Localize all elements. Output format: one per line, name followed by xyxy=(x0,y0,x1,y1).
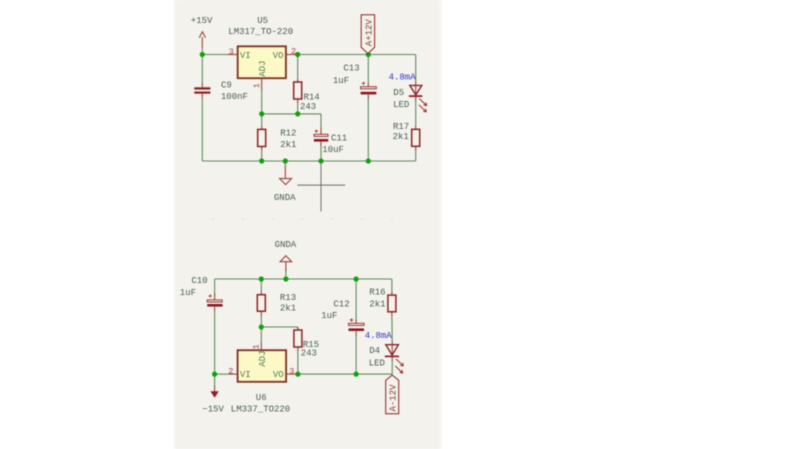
svg-text:2: 2 xyxy=(228,367,233,377)
junction C13 bottom rail xyxy=(366,158,371,163)
svg-text:C12: C12 xyxy=(333,299,349,309)
svg-text:243: 243 xyxy=(301,348,317,358)
svg-text:+15V: +15V xyxy=(191,16,213,26)
junction VO pin / R15 node xyxy=(295,372,300,377)
svg-text:C10: C10 xyxy=(191,276,207,286)
wire VI row xyxy=(215,373,229,375)
svg-text:LM317_TO-220: LM317_TO-220 xyxy=(228,27,293,37)
resistor R15 xyxy=(294,327,319,358)
wire R16 / LED D4 column xyxy=(391,279,393,374)
junction at +15V / VI rail xyxy=(200,52,205,57)
wire +15V stem xyxy=(201,47,203,55)
svg-text:ADJ: ADJ xyxy=(258,61,268,77)
junction R12 bottom rail xyxy=(259,158,264,163)
svg-text:LED: LED xyxy=(393,100,409,110)
svg-text:C9: C9 xyxy=(221,80,232,90)
wire R13 column xyxy=(260,279,262,327)
svg-text:−15V: −15V xyxy=(202,405,224,415)
wire GNDA stem top xyxy=(284,161,286,167)
svg-text:VI: VI xyxy=(240,51,251,61)
wire mid row bottom xyxy=(261,326,298,328)
current label 4.8mA (bottom) xyxy=(365,331,393,341)
resistor R17 xyxy=(393,122,420,150)
svg-text:10uF: 10uF xyxy=(322,145,344,155)
svg-text:D5: D5 xyxy=(393,88,404,98)
wire LED D5 / R17 column xyxy=(415,55,417,162)
ground symbol GNDA (bottom, arrow up) xyxy=(275,240,297,271)
svg-text:4.8mA: 4.8mA xyxy=(365,331,393,341)
wire top rail left segment xyxy=(202,54,227,56)
regulator U6 LM337 body xyxy=(231,350,290,414)
capacitor C13 (polarized) xyxy=(333,64,376,99)
junction R13 / R15 / ADJ node xyxy=(259,324,264,329)
wire bottom rail xyxy=(202,160,415,162)
junction GNDA stem rail xyxy=(283,158,288,163)
svg-text:VO: VO xyxy=(273,51,284,61)
resistor R12 xyxy=(258,126,297,151)
svg-text:3: 3 xyxy=(289,366,294,376)
pin 3 (VI) of U5 xyxy=(227,47,238,57)
junction R14 bottom mid row xyxy=(295,111,300,116)
svg-text:LM337_TO220: LM337_TO220 xyxy=(231,405,290,415)
wire R12 column xyxy=(261,114,263,161)
global label A+12V xyxy=(361,15,374,54)
wire GNDA bottom stem xyxy=(285,270,287,280)
capacitor C9 xyxy=(194,80,248,102)
pin 3 (VO) of U6 xyxy=(286,366,298,376)
wire R14 column xyxy=(297,55,299,114)
junction C12 bottom row xyxy=(354,372,359,377)
current label 4.8mA (top) xyxy=(389,73,417,83)
LED D4 xyxy=(369,341,404,373)
svg-text:GNDA: GNDA xyxy=(274,193,296,203)
svg-text:D4: D4 xyxy=(369,346,380,356)
junction C10 / -15V / VI node xyxy=(212,372,217,377)
svg-text:VO: VO xyxy=(273,370,284,380)
ground symbol GNDA (top) xyxy=(274,166,296,203)
junction at A+12V / C13 xyxy=(366,52,371,57)
svg-text:R16: R16 xyxy=(369,287,385,297)
wire bottom-circuit top rail xyxy=(215,278,392,280)
svg-text:R13: R13 xyxy=(280,293,296,303)
power symbol +15V xyxy=(191,16,213,47)
svg-text:2k1: 2k1 xyxy=(280,304,296,314)
junction ADJ / R12 mid row xyxy=(259,111,264,116)
svg-text:A-12V: A-12V xyxy=(389,384,399,412)
pin 1 (ADJ) of U6 xyxy=(252,342,262,350)
junction at VO pin / R14 xyxy=(295,52,300,57)
junction R13 top rail xyxy=(259,276,264,281)
pin 1 (ADJ) of U5 xyxy=(252,78,262,90)
svg-text:2k1: 2k1 xyxy=(393,132,409,142)
svg-text:1uF: 1uF xyxy=(321,311,337,321)
svg-text:2: 2 xyxy=(291,47,296,57)
svg-text:3: 3 xyxy=(229,47,234,57)
LED D5 xyxy=(393,82,427,112)
svg-text:GNDA: GNDA xyxy=(275,240,297,250)
svg-text:4.8mA: 4.8mA xyxy=(389,73,417,83)
svg-text:ADJ: ADJ xyxy=(258,351,268,367)
power symbol -15V (arrow down) xyxy=(202,386,224,415)
wire mid row xyxy=(262,113,321,115)
op-amp regulator U5 LM317 body xyxy=(228,16,293,78)
wire ADJ column bottom xyxy=(260,327,262,343)
junction C11 bottom rail xyxy=(318,158,323,163)
svg-text:2k1: 2k1 xyxy=(280,140,296,150)
global label A-12V xyxy=(386,375,399,414)
wire C12 column xyxy=(355,279,357,374)
wire top rail right segment xyxy=(298,54,416,56)
wire ADJ column xyxy=(261,89,263,114)
pin 2 (VO) of U5 xyxy=(286,47,298,57)
junction GNDA stem bottom rail xyxy=(283,276,288,281)
capacitor C12 (polarized) xyxy=(321,299,364,335)
svg-text:U6: U6 xyxy=(256,393,267,403)
pin 2 (VI) of U6 xyxy=(228,367,237,377)
resistor R16 xyxy=(369,287,396,315)
wire C10 column xyxy=(214,279,216,374)
svg-text:R17: R17 xyxy=(393,122,409,132)
svg-text:A+12V: A+12V xyxy=(364,19,374,47)
wire R15 column xyxy=(297,327,299,374)
svg-text:2k1: 2k1 xyxy=(369,299,385,309)
svg-text:243: 243 xyxy=(300,102,316,112)
resistor R14 xyxy=(294,79,320,112)
capacitor C11 (polarized) xyxy=(314,128,347,156)
wire C9 column xyxy=(201,55,203,162)
svg-text:100nF: 100nF xyxy=(221,92,248,102)
resistor R13 xyxy=(257,291,296,315)
wire VO row xyxy=(298,373,392,375)
svg-text:R12: R12 xyxy=(280,129,296,139)
wire C13 column xyxy=(367,55,369,162)
svg-text:1uF: 1uF xyxy=(180,288,196,298)
svg-text:U5: U5 xyxy=(257,16,268,26)
svg-text:1: 1 xyxy=(252,83,262,88)
svg-text:1: 1 xyxy=(252,344,262,349)
junction C12 top rail xyxy=(354,276,359,281)
svg-text:C13: C13 xyxy=(343,64,359,74)
capacitor C10 (polarized) xyxy=(180,276,223,311)
wire -15V stem xyxy=(214,374,216,386)
svg-text:1uF: 1uF xyxy=(333,76,349,86)
svg-text:LED: LED xyxy=(369,358,385,368)
wire C11 column xyxy=(320,114,322,161)
svg-text:C11: C11 xyxy=(331,134,347,144)
crosshair graphic lines xyxy=(297,162,345,212)
svg-text:VI: VI xyxy=(240,370,251,380)
